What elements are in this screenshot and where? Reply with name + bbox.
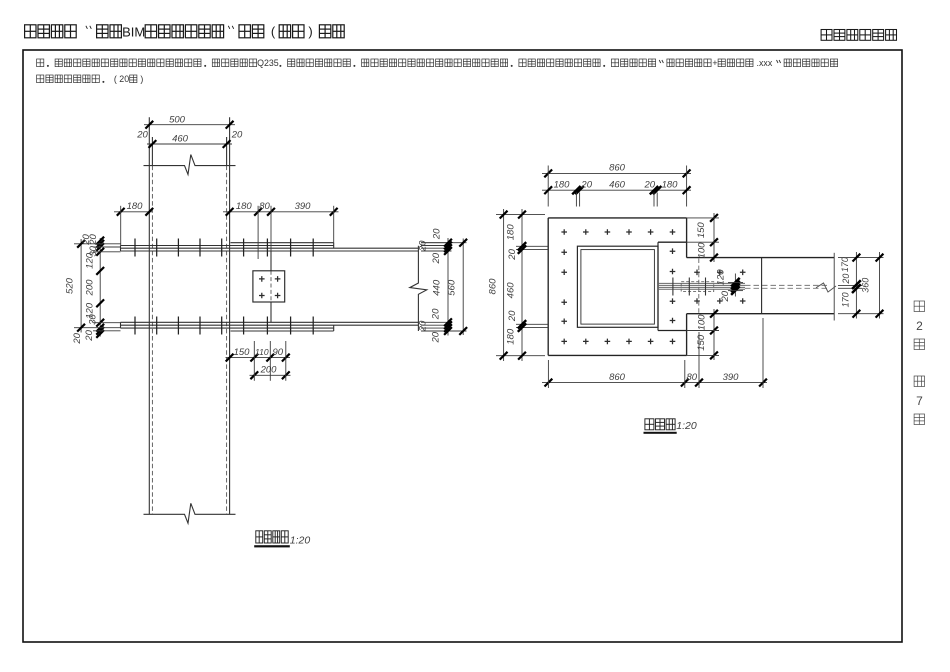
bottom band left end edge <box>120 322 122 328</box>
svg-text:120: 120 <box>85 252 96 269</box>
svg-text:200: 200 <box>85 279 96 297</box>
svg-text:(: ( <box>114 74 117 84</box>
svg-text:460: 460 <box>506 282 517 299</box>
svg-text:20: 20 <box>720 290 731 302</box>
svg-text:390: 390 <box>295 201 312 212</box>
svg-text:7: 7 <box>916 394 923 408</box>
svg-text:20: 20 <box>136 130 148 141</box>
label 正立面图 1:20 <box>256 531 263 543</box>
dim chain 180 20 460 20 180 left <box>521 209 523 361</box>
extension line left plate end <box>120 206 122 246</box>
svg-text:Q235: Q235 <box>257 58 279 68</box>
beam right break line <box>410 246 427 331</box>
column bottom break line <box>144 503 236 523</box>
svg-text:20: 20 <box>430 331 441 343</box>
svg-text:80: 80 <box>259 201 270 212</box>
beam web hidden lines <box>745 284 829 286</box>
svg-text:1:20: 1:20 <box>290 534 311 546</box>
beam bottom cover plate bottom line <box>121 327 334 329</box>
svg-text:+: + <box>712 58 717 68</box>
svg-text:390: 390 <box>723 372 740 383</box>
column inner flange hidden lines <box>151 166 153 515</box>
dim 860 80 390 bottom <box>542 382 767 384</box>
svg-text:20: 20 <box>507 310 518 322</box>
svg-text:100: 100 <box>696 242 707 259</box>
flange extension doubles top <box>575 193 577 207</box>
svg-text:460: 460 <box>609 179 626 190</box>
svg-text:20: 20 <box>119 74 129 84</box>
hidden line column face <box>698 259 700 314</box>
column top break line <box>144 155 236 175</box>
svg-text:20: 20 <box>72 332 83 344</box>
flange splice bolts (vertical marks) <box>134 239 136 257</box>
beam web splice joint line <box>270 251 272 271</box>
svg-text:360: 360 <box>861 278 871 293</box>
svg-text:(: ( <box>271 24 276 39</box>
right inner dim chain <box>447 238 449 336</box>
svg-text:560: 560 <box>447 279 458 296</box>
svg-text:BIM: BIM <box>122 24 145 39</box>
svg-text:500: 500 <box>169 114 186 125</box>
beam flange (plan) bottom edge <box>687 313 835 315</box>
web splice bolts <box>259 276 265 282</box>
web dim ticks cluster <box>734 274 736 297</box>
dim 520 overall <box>80 239 82 333</box>
dim 150 100 upper right <box>713 213 715 262</box>
svg-text:520: 520 <box>64 277 75 294</box>
svg-text:20: 20 <box>432 228 443 240</box>
svg-text:180: 180 <box>236 201 253 212</box>
svg-text:150: 150 <box>696 222 707 239</box>
column section inner square <box>581 250 655 325</box>
svg-text:80: 80 <box>687 372 698 383</box>
right wing lines top <box>421 242 452 244</box>
svg-text:20: 20 <box>417 240 428 252</box>
centerline break zigzag <box>816 283 836 292</box>
web splice plate <box>253 271 285 302</box>
dim line 180 (left of column) <box>114 211 152 213</box>
dim 860 left <box>503 209 505 361</box>
page number column: 第 2 页 共 7 页 <box>914 301 924 312</box>
svg-text:180: 180 <box>506 224 517 241</box>
beam flange (plan) top edge <box>687 257 835 259</box>
svg-text:860: 860 <box>609 163 626 174</box>
beam bottom cover plate lower line (right of column) <box>231 330 334 332</box>
svg-text:): ) <box>140 74 143 84</box>
svg-text:170: 170 <box>841 292 851 307</box>
top band left end edge <box>120 246 122 252</box>
dim line 180 80 390 (right of column) <box>223 211 339 213</box>
svg-text:2: 2 <box>916 319 923 333</box>
right outer dim 560 <box>462 239 464 336</box>
svg-text:180: 180 <box>662 179 679 190</box>
bracket plate edges <box>658 241 687 243</box>
perimeter bolts <box>561 229 567 235</box>
svg-text:440: 440 <box>432 279 443 296</box>
svg-text:): ) <box>308 24 312 39</box>
right beam width wings <box>838 257 884 259</box>
svg-text:20: 20 <box>417 320 428 332</box>
svg-text:20: 20 <box>580 179 592 190</box>
svg-text:460: 460 <box>172 134 189 145</box>
svg-text:860: 860 <box>488 278 499 295</box>
svg-text:110: 110 <box>255 347 269 357</box>
top extension lines <box>547 166 549 207</box>
extension line cover plate end <box>333 206 335 243</box>
svg-text:1:20: 1:20 <box>676 420 697 432</box>
svg-text:20: 20 <box>430 308 441 320</box>
dim 360 <box>879 252 881 319</box>
dim line 150 110 90 <box>226 357 291 359</box>
column outer flange lines <box>148 117 150 514</box>
svg-text:20: 20 <box>231 130 243 141</box>
label 俯视图 1:20 <box>645 419 654 430</box>
extension lines for 80 segment <box>257 206 259 259</box>
beam web edge-on (solid gray band) <box>658 282 745 284</box>
base plate outline <box>548 217 686 219</box>
svg-text:90: 90 <box>273 347 284 358</box>
svg-text:860: 860 <box>609 372 626 383</box>
beam bottom flange bottom line <box>121 324 419 326</box>
dim 500 (column outer width) <box>144 124 235 126</box>
bottom cover plate right end edge <box>333 325 335 331</box>
svg-text:180: 180 <box>127 201 144 212</box>
hidden web splice plate <box>681 282 714 292</box>
web bolts (edge-on marks) <box>672 278 674 296</box>
dim chain 170 20 170 <box>855 252 857 319</box>
svg-text:180: 180 <box>554 179 571 190</box>
column section outer square <box>577 246 658 327</box>
svg-text:20: 20 <box>507 248 518 260</box>
dim 460 (column inner width) <box>147 143 232 145</box>
dim 100 150 lower right <box>713 309 715 360</box>
problem paragraph line 1 <box>37 59 44 67</box>
problem paragraph line 2 <box>37 75 44 83</box>
svg-text:100: 100 <box>696 314 707 331</box>
svg-text:180: 180 <box>506 328 517 345</box>
bottom extension lines <box>547 360 549 388</box>
left chain wing lines <box>74 243 121 245</box>
header title left <box>25 25 36 38</box>
beam top flange top line <box>121 247 419 249</box>
beam top cover plate upper line (right of column) <box>231 242 334 244</box>
left wing lines <box>496 214 545 216</box>
bracket bolts <box>694 270 700 276</box>
beam top cover plate top line <box>121 245 334 247</box>
header org right <box>821 30 832 41</box>
svg-text:20: 20 <box>84 329 95 341</box>
svg-text:200: 200 <box>260 365 278 376</box>
left dim chain line <box>99 238 101 337</box>
beam end extension line <box>833 253 835 321</box>
svg-text:150: 150 <box>696 334 707 351</box>
column inner flange lines (solid above break) <box>151 137 153 166</box>
dim chain 180 20 460 20 180 top <box>542 189 691 191</box>
svg-text:170: 170 <box>840 257 850 272</box>
svg-text:120: 120 <box>716 269 727 286</box>
svg-text:20: 20 <box>431 252 442 264</box>
svg-text:30: 30 <box>88 314 99 325</box>
dim 860 top <box>542 172 691 174</box>
splice cover end line <box>761 258 763 314</box>
bottom extension lines <box>253 341 255 381</box>
beam top flange bottom line <box>121 250 419 252</box>
beam bottom flange top line <box>121 321 419 323</box>
svg-text:.xxx: .xxx <box>757 58 773 68</box>
dim line 200 <box>250 374 291 376</box>
svg-text:20: 20 <box>88 234 99 246</box>
svg-text:150: 150 <box>234 347 251 358</box>
svg-text:20: 20 <box>644 179 656 190</box>
top cover plate right end edge <box>333 243 335 249</box>
svg-text:20: 20 <box>841 274 851 285</box>
right wing lines bottom <box>421 321 452 323</box>
